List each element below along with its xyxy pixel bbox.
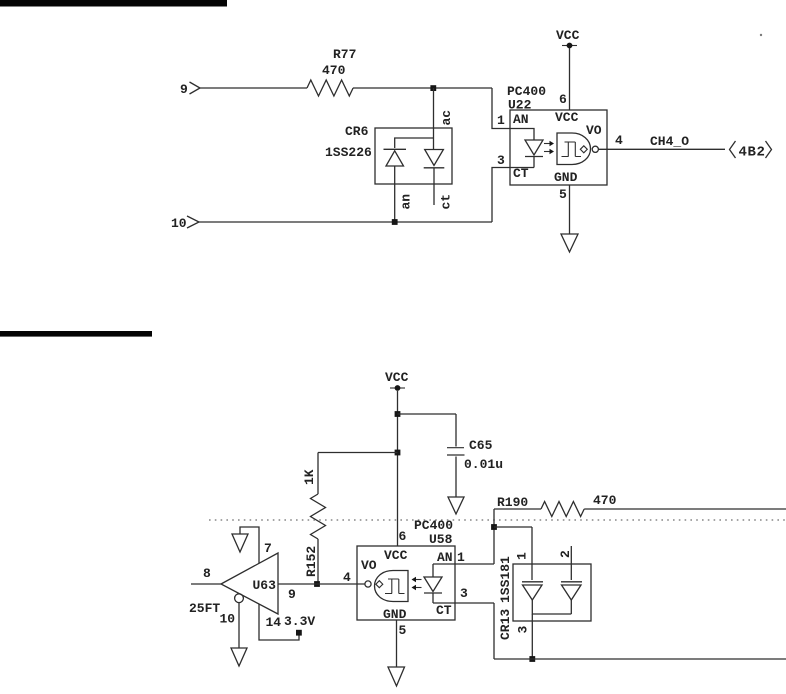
LED inside U58 [433,564,455,577]
svg-text:3: 3 [497,153,505,168]
svg-text:8: 8 [203,566,211,581]
svg-text:9: 9 [180,82,188,97]
wire junction to CR13 pin 1 [494,527,532,580]
pin 5 wire [569,185,571,234]
wire to C65 [398,414,457,447]
svg-text:4: 4 [343,570,351,585]
svg-text:5: 5 [559,187,567,202]
ground arrow pin 10 [231,648,247,666]
pin 5 wire U58 [396,620,398,667]
output bubble [592,146,598,152]
title bar top [0,0,227,7]
svg-text:1: 1 [497,113,505,128]
resistor R190 [494,493,617,517]
detector gate U58 (mirrored) [375,571,409,602]
svg-text:CH4_O: CH4_O [650,134,689,149]
svg-text:GND: GND [383,607,407,622]
LED inside U22 [510,129,534,141]
wire from pin 9 to R77 [200,87,307,89]
svg-text:25FT: 25FT [189,601,220,616]
svg-text:1K: 1K [302,469,317,485]
connector pin 9 [180,82,200,97]
svg-text:3: 3 [460,586,468,601]
pin 14 wire to 3.3V tap [259,604,299,640]
svg-text:PC400: PC400 [414,518,453,533]
wire an from CR6 to bottom wire [394,166,396,222]
svg-text:14: 14 [266,615,282,630]
junction to 1K branch [395,450,401,456]
internal link [532,600,571,614]
svg-text:9: 9 [288,587,296,602]
svg-text:3.3V: 3.3V [284,614,315,629]
input bubble U58 [365,581,371,587]
pin 1 AN wire [455,563,494,565]
svg-text:ac: ac [439,110,454,126]
svg-text:VCC: VCC [384,548,408,563]
svg-text:10: 10 [220,612,236,627]
svg-text:AN: AN [513,112,529,127]
pin 10 wire [238,603,240,648]
svg-text:1SS226: 1SS226 [325,145,372,160]
schmitt symbol [562,142,582,157]
diamond [376,581,383,588]
off-page reference (4B2) [730,141,736,158]
optocoupler U22 PC400 [507,84,607,185]
svg-text:GND: GND [554,170,578,185]
svg-text:U63: U63 [253,578,277,593]
svg-text:U58: U58 [429,532,453,547]
svg-text:CT: CT [436,603,452,618]
junction on top wire [430,85,436,91]
svg-text:7: 7 [264,541,272,556]
svg-text:CT: CT [513,166,529,181]
buffer U63 [221,553,278,614]
pin 9 output wire of U63 to U58 pin 4 [278,583,365,585]
svg-text:470: 470 [322,63,346,78]
wire VCC to pin 6 [569,48,571,110]
coupling arrows (left) [415,579,422,581]
ground arrow under U58 [388,667,405,686]
svg-text:10: 10 [171,216,187,231]
junction on VO line [314,581,320,587]
coupling arrows [544,143,551,145]
left diode of CR13 [522,581,543,583]
svg-text:3: 3 [516,626,531,634]
scan speck [760,34,762,36]
pin 4 output wire [598,148,725,150]
svg-text:0.01u: 0.01u [464,457,503,472]
right diode of CR13 [561,581,582,583]
svg-text:470: 470 [593,493,617,508]
pin 8 wire [191,583,221,585]
svg-text:6: 6 [399,529,407,544]
right diode (cathode bar bottom) [425,150,444,166]
diode pair CR13 1SS181 [498,546,591,640]
ground arrow under C65 [448,497,464,514]
svg-text:CR6: CR6 [345,124,369,139]
wire R190 to right edge [584,508,786,510]
arrow symbol pin 7 [232,534,248,552]
detector gate U22 [557,133,591,165]
svg-text:R77: R77 [333,47,356,62]
diamond [580,146,587,153]
wire C65 to ground [455,457,457,498]
svg-text:C65: C65 [469,438,493,453]
svg-text:VCC: VCC [555,110,579,125]
stub ct below CR6 [433,169,435,206]
svg-text:VCC: VCC [556,28,580,43]
wire ac from junction down into CR6 [433,88,435,150]
dotted separator line [209,519,786,521]
svg-text:1SS181: 1SS181 [498,556,513,603]
junction on bottom wire [529,656,535,662]
svg-text:ct: ct [439,194,454,210]
VCC vertical wire to pin 6 of U58 [397,391,399,546]
left diode (cathode bar top) [384,148,407,150]
svg-text:VO: VO [361,558,377,573]
capacitor C65 [447,438,503,472]
pin 2 stub [570,546,572,580]
resistor R77 [307,47,356,96]
svg-text:5: 5 [399,623,407,638]
junction on bottom wire [392,219,398,225]
svg-text:4: 4 [615,133,623,148]
svg-text:1: 1 [515,552,530,560]
svg-text:1: 1 [457,550,465,565]
VCC symbol lower [385,370,409,391]
svg-text:VCC: VCC [385,370,409,385]
junction R190/CR13 [491,524,497,530]
wire to pin 1 of U22 [492,88,510,129]
connector pin 10 [171,216,199,231]
pin 10 bubble [235,594,244,603]
svg-text:CR13: CR13 [498,609,513,640]
schmitt symbol [385,579,405,594]
bottom long wire [494,658,786,660]
optocoupler U58 PC400 [357,518,455,622]
svg-text:AN: AN [437,550,453,565]
pin 7 wire [240,527,259,564]
diode pair CR6 1SS226 [325,124,452,184]
title bar lower [0,331,152,337]
svg-text:an: an [399,194,414,210]
3.3V tap dot [296,630,302,636]
wire from R77 to pin1 corner [353,87,492,89]
svg-text:VO: VO [586,123,602,138]
resistor R152 1K [302,469,326,584]
bottom wire from pin 10 [199,221,492,223]
svg-text:R190: R190 [497,495,528,510]
wire to resistor R152 top [318,453,398,495]
svg-text:R152: R152 [304,546,319,577]
wire to pin 3 of U22 [492,168,510,223]
junction to C65 branch [395,411,401,417]
pin 3 wire CR13 to bottom wire [531,614,533,659]
ground arrow under U22 [561,234,578,252]
VCC symbol top [556,28,580,48]
svg-text:4B2: 4B2 [739,145,766,161]
pin 3 CT wire [455,603,494,659]
wire R190 down to AN line [493,509,495,564]
svg-text:6: 6 [559,92,567,107]
